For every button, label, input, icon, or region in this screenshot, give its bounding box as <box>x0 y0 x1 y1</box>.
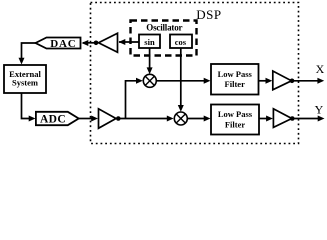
wire mixer M2 to Low Pass Filter 2 <box>187 118 204 120</box>
oscillator box (dashed) <box>131 21 197 56</box>
svg-text:Low Pass: Low Pass <box>218 109 253 119</box>
op-amp buffer U4 (Y output amplifier) <box>273 109 291 128</box>
svg-text:cos: cos <box>175 37 187 47</box>
svg-text:DAC: DAC <box>50 38 76 50</box>
wire branch up to mixer M1 <box>126 81 138 119</box>
node at U3 output <box>290 79 295 84</box>
svg-text:ADC: ADC <box>40 113 66 125</box>
cos block <box>170 35 192 49</box>
svg-text:Filter: Filter <box>225 120 246 130</box>
wire DAC to External System <box>22 43 36 59</box>
op-amp buffer U1 (DAC drive amplifier) <box>99 33 118 52</box>
wire sin to mixer M1 <box>149 48 151 69</box>
wire U4 to Y output <box>292 118 319 120</box>
wire LPF2 to amplifier U4 <box>259 118 267 120</box>
svg-text:System: System <box>12 77 38 87</box>
mixer M1 (multiplier) <box>143 74 156 87</box>
svg-text:Filter: Filter <box>225 79 246 89</box>
wire ADC to amplifier U2 <box>79 118 92 120</box>
wire U1 to DAC <box>83 42 96 44</box>
wire cos to mixer M2 <box>180 48 182 106</box>
svg-text:DSP: DSP <box>196 7 221 22</box>
node at U1 output <box>94 41 99 46</box>
svg-text:Oscillator: Oscillator <box>146 23 182 33</box>
wire U3 to X output <box>292 80 319 82</box>
svg-text:sin: sin <box>144 37 155 47</box>
ADC block <box>36 112 79 125</box>
External System box <box>4 65 46 93</box>
node at U2 output <box>116 116 121 121</box>
sin block <box>139 35 160 49</box>
svg-text:Y: Y <box>315 102 324 116</box>
svg-text:X: X <box>316 62 325 76</box>
mixer M2 (multiplier) <box>174 112 187 125</box>
DSP dotted boundary box <box>91 3 299 144</box>
wire External System to ADC <box>22 93 30 119</box>
Low Pass Filter 2 box <box>211 105 259 135</box>
op-amp buffer U3 (X output amplifier) <box>273 71 292 90</box>
wire LPF1 to amplifier U3 <box>259 80 267 82</box>
wire mixer M1 to Low Pass Filter 1 <box>156 80 204 82</box>
DAC block <box>36 38 81 49</box>
node at U4 output <box>290 116 295 121</box>
svg-text:Low Pass: Low Pass <box>218 69 253 79</box>
op-amp buffer U2 (ADC input amplifier) <box>99 109 117 129</box>
Low Pass Filter 1 box <box>211 64 259 95</box>
wire sin to amplifier U1 <box>119 41 139 43</box>
wire U2 to mixer M2 <box>116 118 168 120</box>
